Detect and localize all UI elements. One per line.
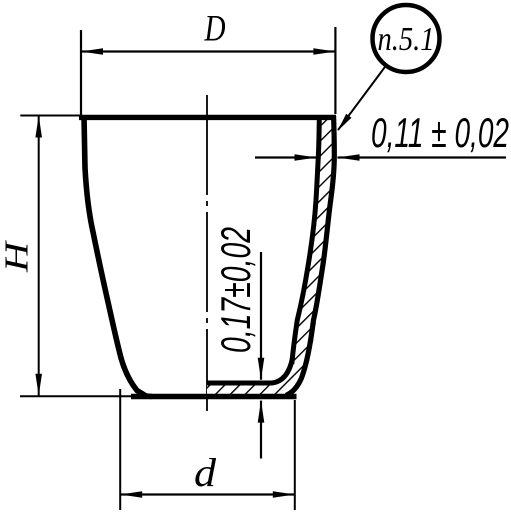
wall thickness arrow right [338, 154, 360, 161]
bottom thickness arrow lower [258, 401, 265, 423]
bottom thickness dimension line upper part [260, 252, 262, 380]
wall thickness dimension line right part [338, 156, 507, 158]
svg-text:п.5.1: п.5.1 [378, 21, 435, 58]
D dimension extension line left [80, 30, 82, 115]
inner bottom surface [207, 358, 293, 383]
D dimension arrow right [313, 48, 335, 55]
d dimension line [120, 493, 295, 495]
wall thickness arrow left [295, 154, 317, 161]
wall thickness dimension line left part [255, 156, 316, 158]
bottom extension thin line [20, 395, 135, 397]
outer wall line [286, 116, 334, 396]
D dimension extension line right [334, 27, 336, 114]
H dimension line [38, 116, 40, 396]
centerline [206, 95, 208, 411]
svg-text:0,11 ± 0,02: 0,11 ± 0,02 [371, 109, 509, 156]
H dimension arrow top [35, 116, 42, 138]
leader arrowhead [338, 114, 352, 131]
bottom thickness arrow upper [258, 358, 265, 380]
D dimension arrow left [81, 48, 103, 55]
svg-text:D: D [204, 9, 226, 50]
wall cross-section hatching [207, 118, 335, 399]
d dimension arrow left [120, 491, 142, 498]
svg-text:d: d [194, 450, 217, 495]
H dimension extension top [20, 115, 80, 117]
d dimension arrow right [273, 491, 295, 498]
left wall outline [84, 116, 152, 397]
svg-text:H: H [0, 239, 36, 273]
bottom thickness dimension line lower part [260, 401, 262, 459]
bottom outer line [131, 394, 297, 399]
inner wall line [292, 118, 320, 364]
d dimension extension left [119, 389, 121, 510]
top rim [79, 115, 336, 120]
H dimension arrow bottom [35, 374, 42, 396]
balloon circle п.5.1 [373, 5, 440, 72]
d dimension extension right [294, 400, 296, 510]
leader line [338, 66, 386, 130]
svg-text:0,17±0,02: 0,17±0,02 [212, 227, 259, 353]
D dimension line [81, 50, 335, 52]
